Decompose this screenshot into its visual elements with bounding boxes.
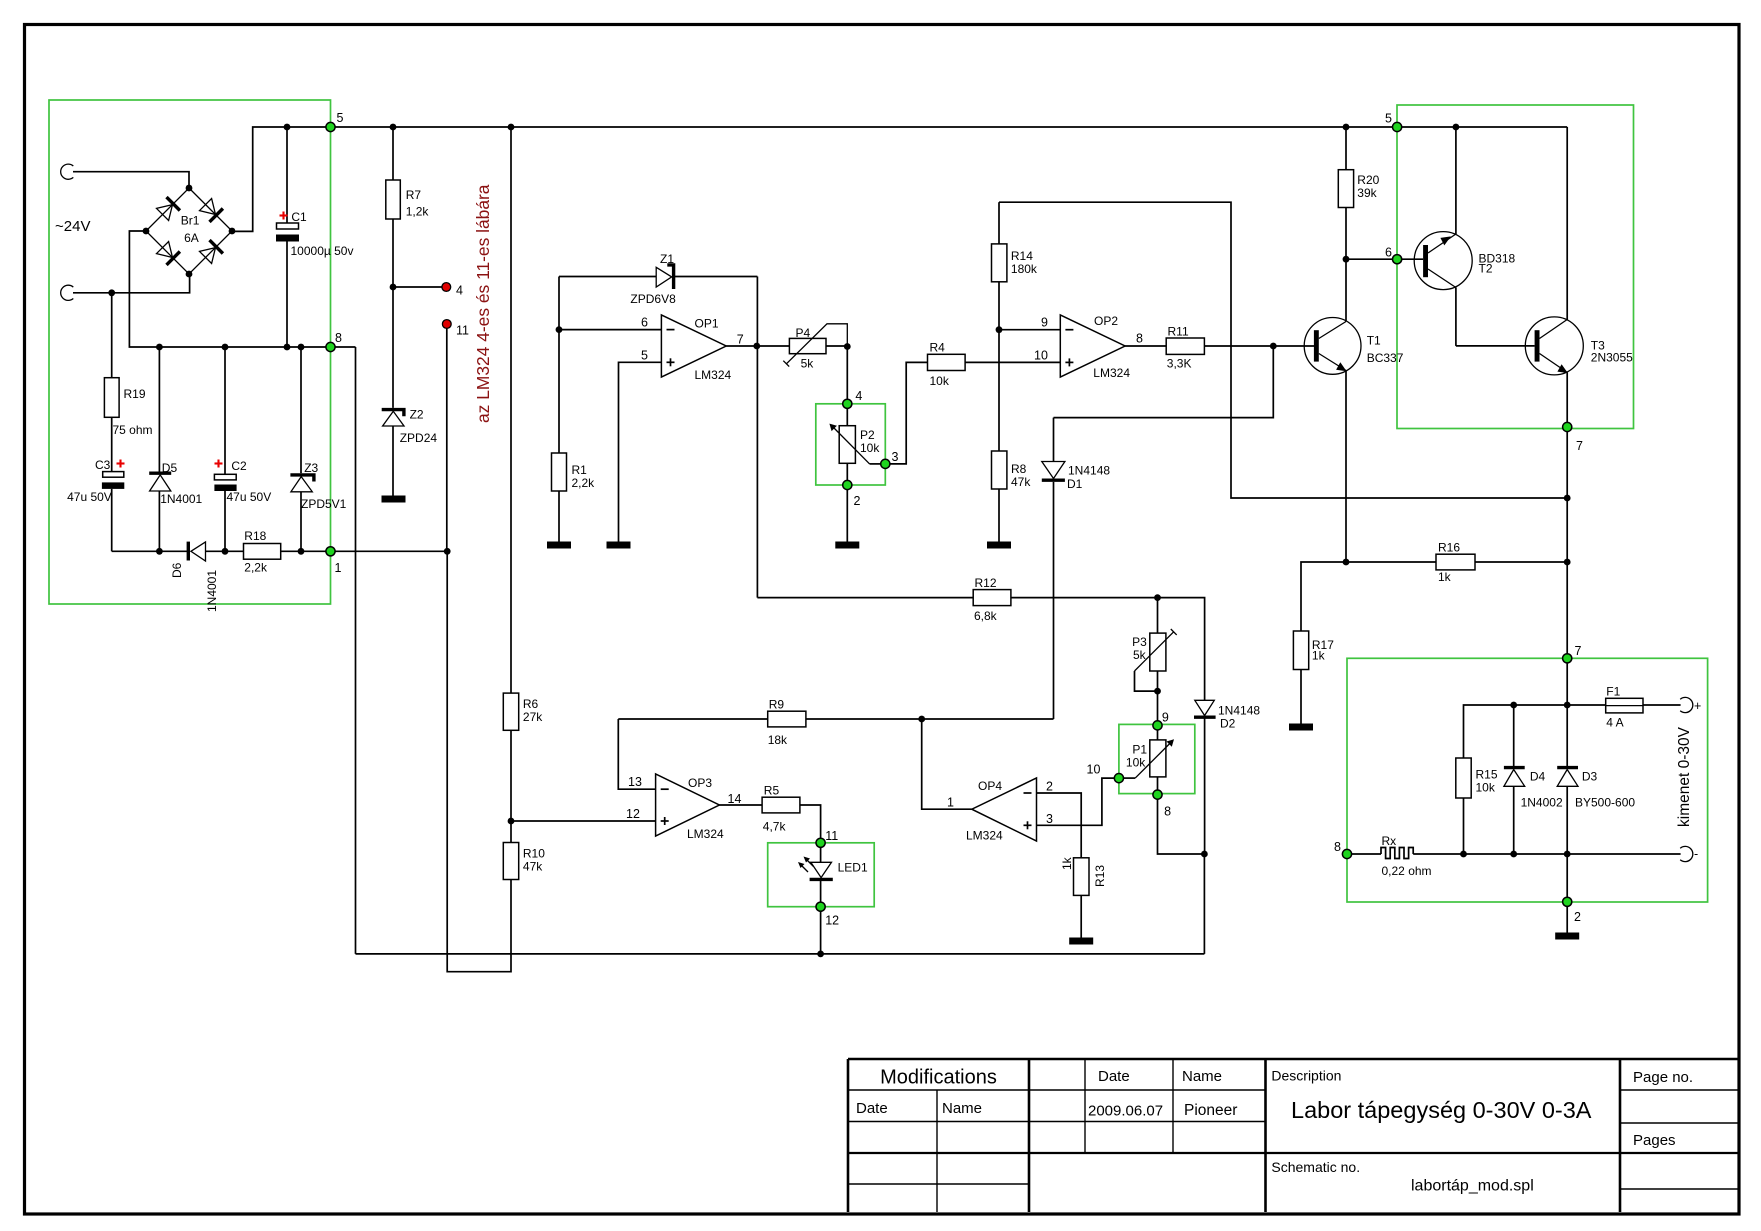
wire R13 to ground <box>1080 895 1082 938</box>
svg-text:OP3: OP3 <box>688 776 712 790</box>
svg-text:Pioneer: Pioneer <box>1184 1102 1237 1119</box>
diode D1 <box>1042 418 1065 719</box>
svg-text:4: 4 <box>855 389 862 403</box>
resistor R9 <box>768 711 806 727</box>
wire low rail node1 <box>112 550 188 552</box>
svg-text:2: 2 <box>1046 780 1053 794</box>
svg-text:Name: Name <box>942 1100 982 1117</box>
svg-text:-: - <box>1694 847 1698 861</box>
junction Z3 top <box>298 344 305 351</box>
transistor T3 <box>1525 127 1583 422</box>
svg-text:D1: D1 <box>1067 477 1083 491</box>
svg-text:9: 9 <box>1041 316 1048 330</box>
op-amp OP2 <box>1060 315 1125 377</box>
svg-text:2: 2 <box>1574 910 1581 924</box>
wire Z1 right down to OP1 out <box>756 277 758 347</box>
wire R11 to T1 base <box>1204 345 1314 347</box>
svg-text:Date: Date <box>856 1100 888 1117</box>
plus sign C2 <box>215 460 223 468</box>
svg-text:D6: D6 <box>170 562 184 578</box>
wire OP1 output <box>726 345 789 347</box>
junction C2 top <box>222 344 229 351</box>
svg-text:BC337: BC337 <box>1367 351 1404 365</box>
potentiometer P4 <box>783 324 847 399</box>
diode D6 <box>188 542 243 561</box>
svg-text:+: + <box>1694 699 1701 713</box>
zener Z2 <box>382 410 404 496</box>
svg-text:5k: 5k <box>1133 648 1147 662</box>
zener Z1 <box>559 265 757 289</box>
junction D3 top <box>1564 702 1571 709</box>
svg-text:LM324: LM324 <box>695 368 732 382</box>
junction P3 wiper <box>1154 688 1161 695</box>
node 8g green dot Rx input <box>1342 849 1351 858</box>
svg-text:P3: P3 <box>1132 635 1147 649</box>
svg-text:27k: 27k <box>523 710 543 724</box>
svg-text:75 ohm: 75 ohm <box>113 423 153 437</box>
op-amp OP3 <box>656 774 720 836</box>
junction D5 top <box>156 344 163 351</box>
svg-text:7: 7 <box>1576 439 1583 453</box>
svg-text:R16: R16 <box>1438 541 1460 555</box>
node 7b green dot output box top <box>1563 654 1572 663</box>
svg-text:Br1: Br1 <box>181 214 200 228</box>
wire node2 to ground <box>846 490 848 542</box>
wire R14 top loop to T3 emitter <box>999 202 1567 498</box>
node 2g green dot output ground <box>1563 897 1572 906</box>
wire bottom rail <box>356 953 1205 955</box>
svg-text:ZPD5V1: ZPD5V1 <box>301 497 347 511</box>
resistor R8 <box>992 330 1007 542</box>
svg-text:1N4002: 1N4002 <box>1521 796 1563 810</box>
junction R15 bottom <box>1460 851 1467 858</box>
diode D5 <box>149 347 171 551</box>
capacitor C3 <box>102 472 124 552</box>
green box LED1 <box>768 843 875 907</box>
diode Br1 top-left <box>157 197 180 220</box>
wire OP3 pin12 <box>511 820 656 822</box>
terminal output plus <box>1680 697 1693 712</box>
terminal AC input lower <box>61 285 74 300</box>
svg-text:7: 7 <box>737 332 744 346</box>
svg-text:ZPD6V8: ZPD6V8 <box>630 292 676 306</box>
diode Br1 top-right <box>200 199 223 222</box>
wire R9 right to D1 bottom <box>806 718 1054 720</box>
wire R16 right <box>1475 561 1567 563</box>
svg-text:5: 5 <box>1385 112 1392 126</box>
svg-text:OP1: OP1 <box>695 317 719 331</box>
node 11g green dot LED top <box>816 838 825 847</box>
transistor T1 <box>1304 259 1361 562</box>
svg-text:R1: R1 <box>572 463 588 477</box>
junction OP4 out feedback <box>918 716 925 723</box>
title block thin lines <box>848 1059 1738 1212</box>
svg-text:T2: T2 <box>1479 262 1493 276</box>
svg-text:LED1: LED1 <box>838 861 868 875</box>
svg-text:1N4001: 1N4001 <box>205 570 219 612</box>
junction D3 bottom <box>1564 851 1571 858</box>
wire OP1 out down to R12 <box>756 346 758 598</box>
svg-text:Description: Description <box>1271 1068 1341 1084</box>
wire to red node 4 <box>393 286 442 288</box>
svg-text:3,3K: 3,3K <box>1167 357 1192 371</box>
svg-text:47u 50V: 47u 50V <box>67 490 112 504</box>
svg-text:R11: R11 <box>1168 325 1189 339</box>
wire LED to bottom rail <box>820 911 822 954</box>
svg-text:11: 11 <box>825 829 838 843</box>
resistor R4 <box>928 354 966 370</box>
wire AC upper <box>73 172 189 188</box>
resistor R1 <box>552 330 567 542</box>
terminal output minus <box>1680 846 1693 861</box>
wire OP4 output up to R9 line <box>922 719 972 809</box>
junction R1 top <box>556 326 563 333</box>
svg-text:labortáp_mod.spl: labortáp_mod.spl <box>1411 1178 1534 1195</box>
wire P1 bottom to minus line <box>1158 799 1205 854</box>
svg-text:Z3: Z3 <box>304 461 318 475</box>
svg-text:Z2: Z2 <box>410 408 424 422</box>
svg-text:D3: D3 <box>1582 770 1598 784</box>
svg-text:6,8k: 6,8k <box>974 609 998 623</box>
svg-text:Z1: Z1 <box>660 252 674 266</box>
node 10 green dot <box>1114 774 1123 783</box>
node 3 green dot <box>881 459 890 468</box>
wire T1 base line node 6 <box>1346 258 1423 260</box>
wire R9 feedback line <box>618 718 767 720</box>
svg-text:4: 4 <box>456 284 463 298</box>
svg-text:1: 1 <box>947 796 954 810</box>
resistor R18 <box>244 544 281 560</box>
svg-text:C2: C2 <box>231 459 247 473</box>
junction T1 emitter R16 <box>1343 559 1350 566</box>
diode Br1 bottom-left <box>157 242 180 265</box>
svg-text:kimenet 0-30V: kimenet 0-30V <box>1676 726 1693 827</box>
junction LED bottom rail <box>817 951 824 958</box>
junction node 4 tap <box>390 284 397 291</box>
svg-text:LM324: LM324 <box>1093 366 1130 380</box>
svg-text:Rx: Rx <box>1382 834 1397 848</box>
svg-text:13: 13 <box>628 775 642 789</box>
svg-text:180k: 180k <box>1011 262 1038 276</box>
svg-text:BY500-600: BY500-600 <box>1575 796 1635 810</box>
wire R4 to OP2 pin10 <box>965 361 1060 363</box>
junction Z3 bottom <box>298 548 305 555</box>
svg-text:Page no.: Page no. <box>1633 1069 1693 1086</box>
node 5 left green dot <box>326 122 335 131</box>
svg-text:R5: R5 <box>764 784 780 798</box>
op-amp OP1 <box>661 315 726 377</box>
diode D3 <box>1557 768 1578 898</box>
svg-text:3: 3 <box>1046 812 1053 826</box>
svg-text:1N4148: 1N4148 <box>1068 464 1110 478</box>
ground below R8 <box>987 542 1011 549</box>
svg-text:8: 8 <box>1136 332 1143 346</box>
green box transistor section <box>1397 105 1634 429</box>
diode Br1 bottom-right <box>200 240 223 263</box>
wire node 11 down <box>446 329 448 552</box>
svg-text:Schematic no.: Schematic no. <box>1271 1159 1360 1175</box>
svg-text:R13: R13 <box>1093 865 1107 887</box>
svg-text:Date: Date <box>1098 1068 1130 1085</box>
svg-text:1k: 1k <box>1312 649 1326 663</box>
junction C2 bottom <box>222 548 229 555</box>
wire bridge left to node8 rail <box>129 231 355 347</box>
svg-text:8: 8 <box>1334 840 1341 854</box>
green box input section <box>49 100 331 604</box>
ground below P2 <box>835 542 859 549</box>
diode D2 <box>1194 700 1216 854</box>
terminal AC input upper <box>61 164 74 179</box>
wire R5 to LED <box>800 805 821 838</box>
svg-text:1: 1 <box>335 561 342 575</box>
wire OP2 pin9 <box>999 329 1060 331</box>
wire left drop to bottom rail <box>355 347 357 954</box>
potentiometer P2 <box>829 408 880 480</box>
ground below Z2 <box>382 496 406 503</box>
node 7 green dot T3 emitter <box>1563 422 1572 431</box>
node 5 right green dot <box>1393 122 1402 131</box>
svg-text:R8: R8 <box>1011 462 1027 476</box>
svg-text:OP2: OP2 <box>1094 314 1118 328</box>
svg-text:1N4148: 1N4148 <box>1218 704 1260 718</box>
svg-text:D2: D2 <box>1220 717 1236 731</box>
junction bridge right <box>229 228 236 235</box>
svg-text:10: 10 <box>1087 763 1101 777</box>
svg-text:12: 12 <box>626 807 640 821</box>
junction node1 to node11 <box>444 548 451 555</box>
resistor R6 <box>503 693 518 730</box>
wire to Rx <box>1352 853 1381 855</box>
resistor R20 <box>1338 127 1353 259</box>
ground below OP1 pin5 <box>607 542 631 549</box>
svg-text:C1: C1 <box>291 210 307 224</box>
junction bridge top <box>186 185 193 192</box>
svg-text:14: 14 <box>728 792 742 806</box>
svg-text:Modifications: Modifications <box>880 1067 997 1089</box>
svg-text:R7: R7 <box>406 188 422 202</box>
svg-text:2009.06.07: 2009.06.07 <box>1088 1103 1163 1120</box>
node 9 green dot <box>1153 721 1162 730</box>
junction R20 bottom <box>1343 256 1350 263</box>
svg-text:Name: Name <box>1182 1068 1222 1085</box>
svg-text:39k: 39k <box>1357 186 1377 200</box>
svg-text:2N3055: 2N3055 <box>1591 351 1633 365</box>
svg-text:R4: R4 <box>930 341 946 355</box>
wire node7b down into box <box>1566 663 1568 766</box>
capacitor C2 <box>214 347 236 551</box>
node 8 green dot <box>326 342 335 351</box>
wire R18 to node 1 <box>281 550 448 552</box>
svg-text:12: 12 <box>825 914 839 928</box>
bridge rectifier Br1 diamond <box>146 188 232 274</box>
svg-text:6: 6 <box>641 316 648 330</box>
junction bridge left <box>143 228 150 235</box>
resistor R7 <box>386 127 401 408</box>
svg-text:T1: T1 <box>1367 334 1381 348</box>
svg-text:R6: R6 <box>523 697 539 711</box>
resistor R10 <box>503 843 518 880</box>
junction minus line <box>1201 851 1208 858</box>
wire F1 line <box>1464 705 1606 758</box>
svg-text:R12: R12 <box>975 576 997 590</box>
ground below R13 <box>1069 938 1093 945</box>
green box P2 <box>816 404 886 485</box>
resistor R19 <box>104 293 119 472</box>
wire node3 to R4 <box>890 362 928 464</box>
resistor R5 <box>762 797 800 813</box>
svg-text:R9: R9 <box>769 698 785 712</box>
svg-text:D4: D4 <box>1530 770 1546 784</box>
svg-text:~24V: ~24V <box>55 218 90 235</box>
green box output section <box>1347 658 1708 902</box>
node 2 green dot <box>843 480 852 489</box>
wire OP4 pin2 to R13 <box>1037 793 1082 858</box>
svg-text:ZPD24: ZPD24 <box>400 431 438 445</box>
svg-text:P4: P4 <box>796 326 811 340</box>
title block outer thick lines <box>848 1059 1738 1212</box>
svg-text:5k: 5k <box>801 357 815 371</box>
svg-text:P2: P2 <box>860 428 875 442</box>
junction R14 R8 <box>996 326 1003 333</box>
svg-text:3: 3 <box>892 450 899 464</box>
svg-text:1,2k: 1,2k <box>406 205 430 219</box>
svg-text:8: 8 <box>1164 805 1171 819</box>
svg-text:4,7k: 4,7k <box>763 820 787 834</box>
resistor Rx shunt zigzag <box>1381 848 1413 859</box>
junction D4 bottom <box>1510 851 1517 858</box>
junction T1 base <box>1270 343 1277 350</box>
junction sense line <box>1564 495 1571 502</box>
svg-text:R19: R19 <box>124 387 146 401</box>
wire OP3 output <box>719 804 762 806</box>
junction bridge bottom <box>186 271 193 278</box>
wire R16 left to R17 <box>1301 562 1346 631</box>
svg-text:LM324: LM324 <box>687 827 724 841</box>
resistor R14 <box>992 202 1007 330</box>
wire T1 base feedback to D1 <box>1054 346 1274 418</box>
svg-text:18k: 18k <box>768 733 788 747</box>
junction P4 wiper <box>844 343 851 350</box>
svg-text:R10: R10 <box>523 847 545 861</box>
junction rail R6 <box>508 124 515 131</box>
node 4 red dot <box>442 283 451 292</box>
potentiometer P3 <box>1135 598 1177 721</box>
svg-text:1k: 1k <box>1438 570 1452 584</box>
junction divider tap <box>508 818 515 825</box>
svg-text:10k: 10k <box>860 441 880 455</box>
node 6 green dot <box>1393 255 1402 264</box>
ground below R1 <box>547 542 571 549</box>
plus sign C3 <box>117 460 125 468</box>
diode D4 <box>1504 705 1525 854</box>
resistor R15 <box>1456 758 1471 854</box>
svg-text:6: 6 <box>1385 246 1392 260</box>
resistor R17 <box>1293 631 1308 670</box>
svg-text:10k: 10k <box>1476 781 1496 795</box>
svg-text:F1: F1 <box>1606 685 1620 699</box>
svg-text:2,2k: 2,2k <box>572 476 596 490</box>
wire OP2 output <box>1125 345 1166 347</box>
wire R17 to ground <box>1300 670 1302 725</box>
ground output <box>1555 933 1579 940</box>
junction D5 bottom <box>156 548 163 555</box>
capacitor C1 <box>276 127 299 347</box>
svg-text:10k: 10k <box>930 374 950 388</box>
LED LED1 <box>810 847 833 902</box>
svg-text:2: 2 <box>854 494 861 508</box>
wire R16 line <box>1346 561 1436 563</box>
svg-text:C3: C3 <box>95 458 111 472</box>
junction R7 top <box>390 124 397 131</box>
svg-text:11: 11 <box>456 324 469 338</box>
svg-text:10: 10 <box>1034 348 1048 362</box>
svg-text:5: 5 <box>641 348 648 362</box>
svg-text:1k: 1k <box>1060 856 1074 870</box>
wire top +V rail <box>232 127 1567 231</box>
svg-text:6A: 6A <box>184 231 199 245</box>
wire minus line <box>1413 853 1680 855</box>
wire OP1 pin5 to ground <box>619 362 662 542</box>
node 11 red dot <box>442 320 451 329</box>
svg-text:47k: 47k <box>523 860 543 874</box>
svg-text:1N4001: 1N4001 <box>160 492 202 506</box>
resistor R16 <box>1436 554 1475 570</box>
wire T3 emitter down <box>1566 432 1568 654</box>
junction OP1 out <box>753 343 760 350</box>
svg-text:4 A: 4 A <box>1606 716 1623 730</box>
svg-text:0,22 ohm: 0,22 ohm <box>1382 864 1432 878</box>
svg-text:8: 8 <box>335 331 342 345</box>
node 4g green dot P2 top <box>843 399 852 408</box>
transistor T2 <box>1414 127 1472 346</box>
junction P3 top <box>1154 594 1161 601</box>
svg-text:R18: R18 <box>244 529 266 543</box>
wire +V rail to R6 <box>510 127 512 693</box>
LED arrows <box>798 857 814 873</box>
wire R9 left down to OP3 pin13 <box>618 719 655 789</box>
junction R19 tap <box>108 289 115 296</box>
wire node1 down to R10 bottom <box>447 551 511 971</box>
wire node10 to OP4 pin3 <box>1037 778 1115 825</box>
svg-text:47k: 47k <box>1011 475 1031 489</box>
svg-text:2,2k: 2,2k <box>244 561 268 575</box>
wire R12 right to D2 <box>1011 598 1205 701</box>
junction T2 collector rail <box>1453 124 1460 131</box>
wire D2 down to bottom rail <box>1203 854 1205 954</box>
resistor R12 <box>973 590 1011 606</box>
svg-text:Labor tápegység 0-30V 0-3A: Labor tápegység 0-30V 0-3A <box>1291 1097 1592 1123</box>
svg-text:R15: R15 <box>1476 768 1498 782</box>
svg-text:P1: P1 <box>1132 743 1147 757</box>
svg-text:7: 7 <box>1575 644 1582 658</box>
svg-text:10k: 10k <box>1126 756 1146 770</box>
green box P1 <box>1119 724 1195 793</box>
wire T2 emitter to T3 base <box>1456 345 1535 347</box>
node 8b green dot P1 bottom <box>1153 790 1162 799</box>
wire R6 to R10 <box>510 730 512 842</box>
svg-text:47u 50V: 47u 50V <box>227 490 272 504</box>
svg-text:9: 9 <box>1162 710 1169 724</box>
junction R16 right <box>1564 559 1571 566</box>
svg-text:R20: R20 <box>1357 173 1379 187</box>
svg-text:LM324: LM324 <box>966 829 1003 843</box>
wire AC lower <box>73 274 190 293</box>
svg-text:D5: D5 <box>162 461 178 475</box>
junction C1 top <box>284 124 291 131</box>
svg-text:OP4: OP4 <box>978 779 1002 793</box>
wire to output ground <box>1566 906 1568 933</box>
plus sign C1 <box>280 212 288 220</box>
